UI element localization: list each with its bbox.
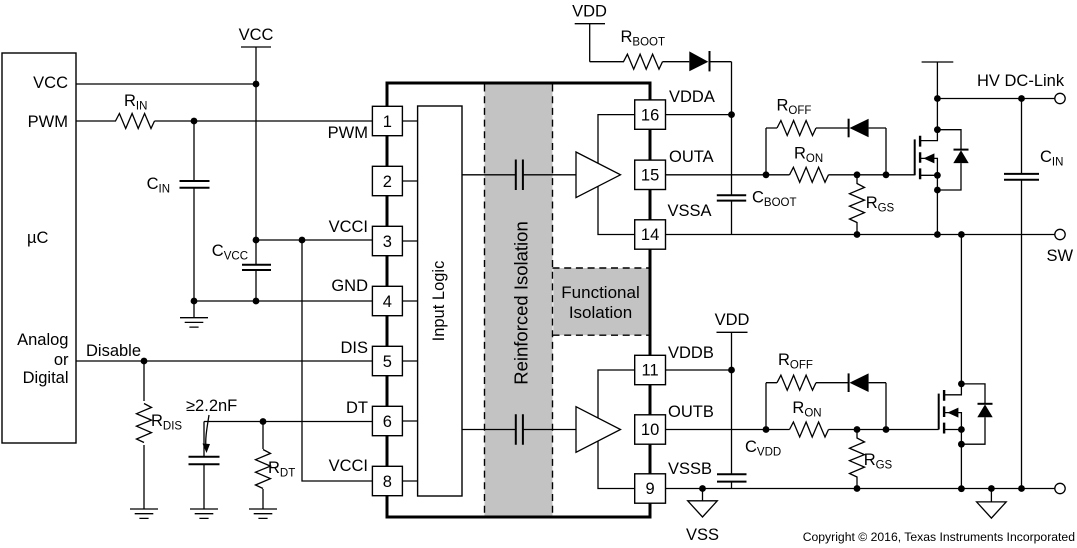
wire PWM from uC (76, 120, 116, 122)
resistor RDIS (143, 361, 145, 401)
svg-text:≥2.2nF: ≥2.2nF (186, 397, 237, 415)
svg-text:RON: RON (792, 399, 821, 420)
ground (RDT) (249, 509, 277, 518)
svg-text:PWM: PWM (328, 124, 368, 142)
pin 8 (372, 466, 402, 495)
ground (right, triangle) (990, 489, 992, 502)
node RGS A bottom (854, 231, 861, 238)
svg-text:VDDA: VDDA (669, 88, 715, 106)
svg-text:Functional: Functional (561, 283, 639, 302)
pin 10 (635, 415, 666, 444)
wire HV DC-Link net (937, 98, 1054, 100)
svg-text:8: 8 (383, 473, 392, 491)
ground (2.2nF cap) (190, 509, 218, 518)
wire OUTA net (666, 174, 790, 176)
resistor RGS B (854, 426, 861, 433)
transistor Q1 (high-side MOSFET) (915, 126, 969, 238)
IC outline U1 (387, 83, 650, 517)
svg-text:DT: DT (346, 399, 368, 417)
svg-text:Disable: Disable (86, 342, 141, 360)
wire VSSA / SW net (666, 234, 1055, 236)
svg-text:9: 9 (646, 480, 655, 498)
node HV junction (934, 95, 941, 102)
svg-text:RIN: RIN (124, 92, 147, 113)
wire GND net (194, 300, 372, 302)
node RGS B bottom (854, 485, 861, 492)
svg-text:Input Logic: Input Logic (430, 261, 448, 342)
svg-text:Reinforced Isolation: Reinforced Isolation (511, 221, 532, 385)
svg-text:16: 16 (641, 106, 659, 124)
wire driver B rails (598, 370, 635, 489)
wire VCCI branch to pin 8 (302, 240, 372, 481)
svg-text:CVDD: CVDD (745, 438, 781, 459)
resistor RON B (790, 422, 829, 437)
svg-text:10: 10 (641, 421, 659, 439)
pin 6 (372, 406, 402, 435)
node VCC junction (253, 81, 260, 88)
svg-text:VCCI: VCCI (329, 218, 368, 236)
input logic block (418, 106, 462, 496)
svg-text:RBOOT: RBOOT (621, 28, 666, 49)
node GND/CIN junction (191, 298, 198, 305)
pin 1 (372, 106, 402, 135)
resistor RIN (116, 114, 155, 129)
svg-text:Copyright © 2016, Texas Instru: Copyright © 2016, Texas Instruments Inco… (803, 530, 1075, 544)
svg-text:14: 14 (641, 226, 659, 244)
pin 14 (635, 220, 666, 249)
pin 5 (372, 346, 402, 375)
node VDDA junction (728, 111, 735, 118)
pin 11 (635, 355, 666, 384)
svg-text:RDIS: RDIS (151, 412, 182, 433)
op-amp driver B (576, 407, 621, 453)
svg-text:CVCC: CVCC (212, 242, 248, 263)
svg-text:VSS: VSS (686, 526, 719, 544)
ground (RDIS) (130, 509, 158, 518)
transistor Q2 (low-side MOSFET) (939, 381, 993, 493)
ground VSS (triangle) (702, 489, 704, 501)
svg-text:GND: GND (331, 277, 368, 295)
svg-text:VCC: VCC (33, 74, 68, 92)
wire VDDA net (666, 114, 732, 116)
svg-text:ROFF: ROFF (778, 351, 813, 372)
svg-text:Digital: Digital (23, 369, 69, 387)
node OUTA/ROFF junction (763, 171, 770, 178)
svg-text:2: 2 (383, 173, 392, 191)
wire DT net (204, 421, 372, 423)
svg-text:PWM: PWM (28, 113, 68, 131)
svg-text:µC: µC (27, 229, 49, 247)
isolation capacitor channel A (462, 174, 576, 176)
node VCCI junction (253, 237, 260, 244)
node OUTB/ROFF junction (763, 426, 770, 433)
node gate B junction (883, 426, 890, 433)
node VCCI branch junction (299, 237, 306, 244)
svg-text:5: 5 (383, 353, 392, 371)
svg-text:RON: RON (794, 145, 823, 166)
capacitor CIN (bulk) (1021, 99, 1023, 174)
node CIN bulk top (1018, 95, 1025, 102)
wire pin stubs to input logic (402, 121, 417, 481)
wire VDDB net (666, 369, 732, 371)
resistor RGS A (854, 171, 861, 178)
HV DC-Link supply bar (922, 62, 954, 130)
capacitor CVCC (255, 240, 257, 265)
svg-text:4: 4 (383, 293, 392, 311)
svg-text:VCCI: VCCI (329, 457, 368, 475)
terminal HV DC-Link (1055, 93, 1065, 103)
resistor ROFF B (766, 383, 777, 430)
wire Q2 drain to SW (960, 235, 962, 384)
node VSS junction (699, 485, 706, 492)
node Q2 drain on SW (958, 231, 965, 238)
pin 4 (372, 286, 402, 315)
svg-text:VDD: VDD (715, 311, 750, 329)
capacitor CVDD (731, 370, 733, 474)
node VDDB junction (728, 367, 735, 374)
svg-text:VDDB: VDDB (668, 344, 714, 362)
svg-text:RGS: RGS (864, 451, 893, 472)
node PWM/CIN junction (191, 118, 198, 125)
svg-text:Analog: Analog (17, 331, 68, 349)
svg-text:VSSA: VSSA (668, 202, 712, 220)
svg-text:DIS: DIS (340, 339, 368, 357)
svg-text:CIN: CIN (1040, 148, 1063, 169)
svg-text:OUTB: OUTB (668, 403, 714, 421)
wire PWM to pin 1 (155, 120, 373, 122)
resistor RDT (262, 422, 264, 450)
node DT junction (260, 418, 267, 425)
capacitor CIN (input) (193, 121, 195, 181)
terminal VSSB (1055, 483, 1065, 493)
reinforced isolation band (485, 85, 553, 516)
svg-text:HV DC-Link: HV DC-Link (977, 72, 1065, 90)
node Disable/RDIS junction (141, 358, 148, 365)
pin 2 (372, 166, 402, 195)
svg-text:CBOOT: CBOOT (752, 189, 797, 210)
diode DOFF B (848, 373, 850, 392)
terminal SW (1055, 229, 1065, 239)
diode DBOOT (689, 51, 708, 71)
functional isolation box (553, 268, 648, 335)
wire Disable net (76, 360, 372, 362)
node GND/CVCC junction (253, 298, 260, 305)
node CIN bulk bottom (1018, 485, 1025, 492)
wire VCC from uC (76, 83, 256, 85)
op-amp driver A (576, 152, 621, 198)
microcontroller block uC (2, 53, 76, 443)
wire VCCI to pin 3 (256, 239, 372, 241)
svg-text:Isolation: Isolation (569, 303, 632, 322)
resistor RON A (790, 167, 829, 182)
pin 9 (635, 474, 666, 503)
wire VSSB net (666, 488, 1055, 490)
diode DOFF A (848, 119, 850, 138)
svg-text:VDD: VDD (572, 3, 607, 21)
pin 16 (635, 100, 666, 129)
svg-text:RDT: RDT (268, 459, 295, 480)
svg-text:VCC: VCC (239, 26, 274, 44)
node gate A junction (883, 171, 890, 178)
wire VCC rail vertical (255, 47, 257, 240)
capacitor CBOOT (731, 115, 733, 196)
ground (GND net) (193, 301, 195, 318)
svg-text:1: 1 (383, 113, 392, 131)
node right ground junction (988, 485, 995, 492)
resistor RBOOT (624, 54, 663, 69)
svg-text:ROFF: ROFF (777, 97, 812, 118)
svg-text:11: 11 (642, 362, 659, 380)
pin 3 (372, 226, 402, 255)
svg-text:VSSB: VSSB (668, 460, 712, 478)
resistor ROFF A (766, 128, 777, 175)
wire OUTB net (666, 429, 790, 431)
isolation capacitor channel B (462, 429, 576, 431)
svg-text:SW: SW (1047, 247, 1074, 265)
pin 15 (635, 160, 666, 189)
svg-text:OUTA: OUTA (669, 148, 714, 166)
svg-text:6: 6 (383, 413, 392, 431)
svg-text:15: 15 (641, 167, 659, 185)
svg-text:or: or (54, 351, 69, 369)
svg-text:CIN: CIN (147, 175, 170, 196)
wire driver A rails (598, 115, 635, 235)
svg-text:RGS: RGS (866, 194, 895, 215)
svg-text:3: 3 (383, 233, 392, 251)
